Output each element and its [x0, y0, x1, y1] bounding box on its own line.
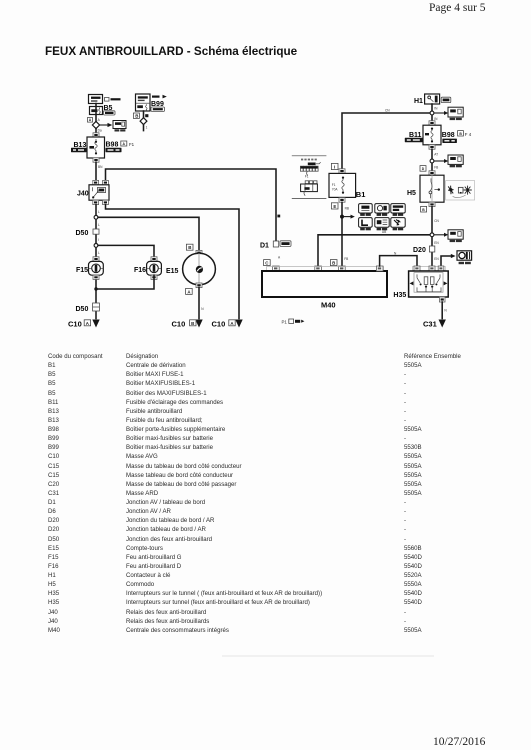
- node junction to E15: [94, 215, 98, 219]
- svg-text:F16: F16: [134, 267, 146, 274]
- svg-text:D50: D50: [76, 230, 89, 237]
- svg-text:A: A: [278, 256, 281, 260]
- svg-text:B1: B1: [356, 190, 366, 199]
- wire J40 out to right C10 ground: [106, 205, 240, 319]
- B11 bottom pin: [429, 145, 435, 149]
- svg-text:FB: FB: [344, 257, 348, 261]
- fuse B13: [87, 137, 105, 158]
- fog switch icon: [457, 251, 472, 264]
- label C10 A: [68, 320, 91, 329]
- ground C10 A left: [92, 320, 99, 328]
- svg-text:CN: CN: [385, 108, 390, 112]
- connector view icon (H5 node): [448, 230, 463, 242]
- svg-text:BN: BN: [98, 165, 103, 169]
- svg-text:L: L: [98, 223, 100, 227]
- svg-text:C10: C10: [212, 320, 226, 329]
- wire label M: [145, 114, 148, 117]
- wire tick on D1 riser: [277, 215, 280, 218]
- legend relaybox pictogram: [301, 181, 318, 196]
- branch arrow to connector icon: [434, 111, 448, 115]
- pin letter box B of B99: [133, 113, 139, 118]
- H35 bottom pin: [439, 297, 445, 302]
- legend fusebox pictogram: [300, 159, 320, 179]
- svg-text:AT: AT: [434, 152, 438, 156]
- wire H5 to H35: [431, 207, 433, 266]
- node diamond under B5: [92, 121, 99, 128]
- svg-text:B98: B98: [106, 141, 119, 148]
- pin letter box A of B98: [121, 141, 127, 146]
- wire H5 node to M40 (horizontal): [318, 235, 430, 266]
- harness bar under B98: [442, 139, 457, 143]
- J40 bottom pins: [93, 200, 109, 204]
- pin letter box B at M40: [330, 260, 337, 266]
- pin letter box C at M40: [264, 260, 271, 266]
- wire junction to F16: [98, 245, 154, 261]
- svg-text:B: B: [332, 261, 335, 266]
- connector view icon (H1 node): [448, 107, 463, 120]
- wire M40/D1 to J40 coil (long horizontal): [106, 169, 277, 241]
- svg-text:P1: P1: [282, 319, 288, 324]
- E15 bottom pin: [196, 283, 202, 288]
- branch arrow to connector icon: [100, 123, 113, 127]
- wire B5 battery to fuse to diamond: [95, 104, 97, 122]
- F16 bottom pin: [151, 275, 157, 279]
- svg-text:B98: B98: [442, 132, 455, 139]
- battery fusebox B99: [136, 94, 151, 111]
- svg-text:L: L: [98, 210, 100, 214]
- pin letter box B of H5: [421, 206, 427, 212]
- svg-text:N: N: [201, 307, 204, 311]
- H5 pictogram legend: [446, 181, 475, 200]
- svg-text:M40: M40: [321, 300, 336, 309]
- pin letter box A: [88, 118, 93, 123]
- F15 top pin: [93, 257, 99, 261]
- wire H1 node to B1 (horizontal + riser): [342, 113, 430, 169]
- tachometer E15: [183, 253, 216, 285]
- fuse box B1: [329, 173, 356, 197]
- svg-text:B: B: [188, 245, 191, 250]
- M40 pin (H35 wire): [376, 266, 383, 271]
- node on B1 wire: [340, 215, 344, 219]
- svg-text:A: A: [98, 118, 101, 122]
- svg-text:EN: EN: [434, 257, 439, 261]
- svg-text:E: E: [333, 204, 336, 209]
- wire B13 to J40: [95, 162, 97, 180]
- pin letter A of E15: [186, 288, 193, 294]
- svg-text:B: B: [135, 113, 138, 118]
- battery + label beside B5: [105, 98, 121, 102]
- svg-text:D50: D50: [76, 306, 89, 313]
- svg-text:FB: FB: [434, 166, 438, 170]
- location icon grid r1c1: [359, 204, 373, 216]
- svg-text:I: I: [98, 238, 99, 242]
- J40 top pins: [93, 180, 109, 184]
- harness ref box under B99: [151, 107, 165, 111]
- wire J40 to F15 chain: [95, 205, 97, 319]
- connector strip on M40: [267, 267, 384, 271]
- svg-text:CN: CN: [434, 219, 439, 223]
- ground C10 A right: [235, 320, 242, 328]
- fuse B5: [90, 107, 103, 115]
- wire B99 to diamond: [143, 111, 145, 118]
- F15 bottom pin: [93, 275, 99, 279]
- wire junction to E15: [98, 217, 199, 250]
- svg-text:C10: C10: [172, 320, 186, 329]
- branch arrow to connector icon: [434, 233, 448, 237]
- node under H1: [430, 111, 434, 115]
- junction D50 lower symbol: [93, 303, 100, 311]
- harness bar under B98: [106, 148, 122, 152]
- wire fog switch to H35: [441, 254, 456, 266]
- arrow to location icons: [344, 215, 355, 219]
- M40 pin (H5 wire): [315, 266, 322, 271]
- H5 bottom pin: [429, 202, 435, 206]
- relay J40: [89, 185, 109, 200]
- legend bracket left of B1: [292, 156, 327, 199]
- location icon grid r2c1: [359, 218, 373, 231]
- svg-text:IN: IN: [434, 106, 438, 110]
- pin letter box D of H5: [420, 166, 426, 172]
- svg-text:EN: EN: [434, 241, 439, 245]
- svg-text:B: B: [191, 321, 194, 326]
- svg-text:B13: B13: [74, 142, 87, 149]
- harness bar under B13: [71, 148, 87, 152]
- ground C31: [439, 320, 446, 328]
- ground C10 B: [195, 320, 202, 328]
- svg-text:E15: E15: [166, 268, 179, 275]
- pin letter box B of B98: [458, 131, 464, 136]
- B13 bottom pin: [93, 158, 99, 162]
- location icon grid r2c2: [375, 218, 389, 231]
- svg-text:C31: C31: [423, 320, 437, 329]
- wire H35 to C31: [441, 302, 443, 319]
- ref box of H1: [441, 97, 451, 102]
- stalk switch H5: [420, 175, 444, 202]
- svg-text:H1: H1: [414, 98, 423, 105]
- svg-text:H5: H5: [407, 190, 416, 197]
- svg-text:J40: J40: [77, 191, 89, 198]
- node diamond under B99: [140, 118, 147, 125]
- junction D1 symbol: [273, 241, 278, 247]
- harness bar under B11: [405, 138, 423, 142]
- body computer M40: [262, 271, 387, 297]
- key switch H1: [425, 94, 440, 104]
- tunnel switches H35: [409, 271, 449, 297]
- E15 top pin: [196, 250, 202, 255]
- svg-text:70A: 70A: [332, 188, 339, 192]
- wire M40 to H35: [380, 256, 417, 266]
- node F15/F16 joint: [94, 287, 97, 290]
- fog lamp F15: [89, 261, 104, 275]
- wire H1 to B11: [431, 104, 433, 121]
- svg-text:H35: H35: [393, 292, 406, 299]
- B11 top pin: [429, 121, 435, 125]
- connector view icon (B11 node): [448, 155, 463, 167]
- wire B1 to M40: [341, 202, 343, 266]
- wire E15 to ground: [198, 288, 200, 319]
- junction D50 symbol: [93, 229, 99, 234]
- svg-text:Da: Da: [98, 129, 102, 133]
- wire stub below B99 diamond: [143, 125, 145, 131]
- label C10 A right: [212, 320, 236, 329]
- svg-text:RB: RB: [345, 206, 349, 210]
- svg-text:1: 1: [146, 125, 148, 129]
- pin letter box I of B1: [331, 163, 338, 169]
- pin letter B of E15: [186, 244, 193, 250]
- svg-text:F1: F1: [129, 142, 135, 147]
- svg-text:C10: C10: [68, 320, 82, 329]
- svg-text:B11: B11: [409, 132, 422, 139]
- svg-text:AB: AB: [382, 230, 386, 234]
- svg-text:I: I: [334, 165, 335, 170]
- svg-text:F1: F1: [332, 183, 336, 187]
- wire B11 to H5: [431, 149, 433, 171]
- P1 ground legend: [282, 319, 305, 324]
- fuse B11: [423, 125, 441, 145]
- H35 top pins: [414, 266, 444, 271]
- svg-text:F 4: F 4: [465, 132, 472, 137]
- H5 top pin: [429, 171, 435, 175]
- svg-text:F1: F1: [305, 174, 309, 178]
- harness ref box under B5: [104, 111, 116, 115]
- svg-text:F15: F15: [76, 267, 88, 274]
- location icon grid r1c2: [375, 204, 389, 216]
- M40 pin (B1 wire): [339, 266, 346, 271]
- node under H5: [430, 233, 434, 237]
- node junction to F16: [94, 244, 98, 248]
- wire diamond to B13: [95, 129, 97, 133]
- svg-text:D1: D1: [260, 243, 269, 250]
- location icon grid r2c3: [391, 218, 405, 231]
- B1 top pin: [339, 169, 345, 174]
- ref box of D1: [280, 241, 291, 247]
- node under B11: [430, 159, 434, 163]
- battery + label beside B99: [152, 95, 167, 99]
- branch arrow to connector icon: [434, 159, 448, 163]
- pin letter box E of B1: [331, 203, 338, 209]
- B13 top pin: [93, 133, 99, 137]
- M40 pin (D1 wire): [273, 266, 280, 271]
- label C10 B: [172, 320, 197, 329]
- B1 bottom pin: [339, 198, 345, 203]
- wire F16 return to F15 node: [96, 275, 154, 289]
- location icon grid r1c3: [391, 204, 405, 216]
- fog lamp F16: [147, 261, 162, 275]
- connector strip on H35: [413, 266, 446, 270]
- svg-text:D20: D20: [413, 247, 426, 254]
- svg-text:N: N: [444, 308, 447, 312]
- junction D20 symbol: [429, 246, 434, 252]
- svg-text:L: L: [98, 251, 100, 255]
- battery feed box of B5: [89, 95, 103, 104]
- F16 top pin: [151, 257, 157, 261]
- connector view icon (B5 branch): [113, 121, 126, 132]
